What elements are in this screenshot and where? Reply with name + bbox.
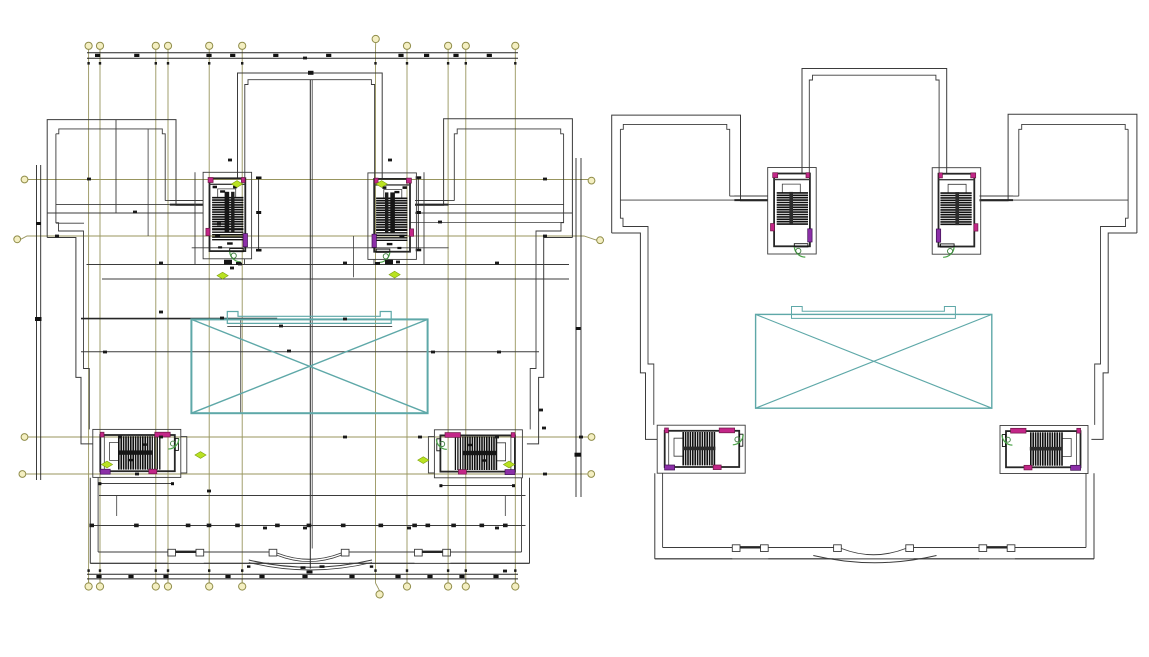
dim tick <box>349 575 354 578</box>
partition x=116 <box>115 120 117 213</box>
grid line x=155.8 <box>155 49 157 583</box>
grid bubble right 2 <box>597 237 604 244</box>
grid bubble left 2 <box>14 236 21 243</box>
grid line x=168 <box>167 49 169 583</box>
dim tick <box>459 575 464 578</box>
stair core bottom-left (right plan) <box>657 425 745 473</box>
floor line y=248 <box>192 247 449 249</box>
stair core top-right (right plan) <box>932 168 981 258</box>
stair annex right <box>428 437 434 473</box>
entrance arc inner <box>277 553 341 559</box>
grid bubbles bottom <box>85 579 519 598</box>
skylight diagonal 1 <box>191 319 427 413</box>
wall: top-left wing inner <box>56 129 203 201</box>
grid bubble <box>152 42 159 49</box>
grid bubble <box>372 35 379 42</box>
grid bubble <box>85 583 92 590</box>
grid bubble left 1 <box>21 176 28 183</box>
wall inner below right stair <box>521 478 523 552</box>
wall: bottom wall outer segments <box>655 558 733 560</box>
partition x=116 <box>116 496 118 517</box>
grid bubbles sides <box>14 176 604 477</box>
dim tick <box>273 54 278 57</box>
grid bubble <box>164 42 171 49</box>
grid line y=179 <box>28 179 588 181</box>
dim tick <box>259 575 264 578</box>
detail marks <box>55 57 583 573</box>
interior partitions <box>89 120 507 528</box>
grid bubble <box>85 42 92 49</box>
partition x=148 <box>147 129 149 236</box>
wall: top-centre protrusion outer <box>802 69 947 175</box>
partition left of stair TL <box>194 172 196 264</box>
dim tick <box>398 54 403 57</box>
wall: protrusion inner <box>809 75 939 174</box>
skylight top vent <box>792 307 956 319</box>
window tabs <box>168 549 176 556</box>
dim tick <box>427 575 432 578</box>
wall: top-centre protrusion outer <box>238 73 383 179</box>
wall: bottom wall outer segments <box>90 562 168 564</box>
stair dimension line 2 <box>416 176 422 251</box>
glazing segment left <box>740 546 761 548</box>
grid bubbles top <box>85 35 519 49</box>
partition right of stair TR <box>423 172 425 264</box>
dim tick <box>35 317 42 321</box>
grid line x=209.2 <box>208 49 210 583</box>
marks below top stairs <box>224 71 393 265</box>
window tabs <box>732 545 740 552</box>
dim tick <box>487 54 492 57</box>
dim tick <box>206 54 211 57</box>
wall: top-right wing inner <box>980 124 1129 196</box>
glazing segment left <box>176 551 197 553</box>
grid bubble <box>445 42 452 49</box>
stair core top-left (right plan) <box>768 168 817 258</box>
wall inner below left stair <box>662 473 664 547</box>
floor line y=352 <box>81 351 539 353</box>
skylight diagonal 1 <box>756 314 992 408</box>
grid stub dots <box>87 62 516 572</box>
wall: stair connector left <box>56 204 170 206</box>
grid line y=437 <box>28 436 588 438</box>
wall: left inner step <box>56 134 89 430</box>
grid bubble right 1 <box>588 177 595 184</box>
grid bubble <box>206 42 213 49</box>
stair sub-dimension bottom-right <box>439 484 515 487</box>
stair core bottom-right <box>434 430 522 478</box>
stair dimension line 1 <box>256 177 262 252</box>
entrance arc outer <box>249 560 372 567</box>
grid bubble <box>96 583 103 590</box>
dimension line right <box>575 158 582 497</box>
wall: stair connector right <box>449 204 564 206</box>
floor line y=213 <box>47 212 203 214</box>
wall: wing bottom outer left <box>612 233 658 439</box>
partition x=505 <box>504 496 506 517</box>
grid bubble <box>206 583 213 590</box>
grid bubble right 4 <box>588 471 595 478</box>
grid bubble left 3 <box>21 434 28 441</box>
grid bubble <box>164 583 171 590</box>
dim tick <box>424 54 429 57</box>
partition x=353 <box>353 236 355 277</box>
grid bubble <box>445 583 452 590</box>
courtyard skylight box <box>756 314 992 408</box>
wall: top-left wing outer <box>47 120 203 238</box>
stair sub-dimension bottom-left <box>98 482 174 485</box>
grid line x=407 <box>406 49 408 583</box>
wall: central spine <box>309 80 311 569</box>
dim tick <box>493 575 498 578</box>
marker diamond in stair TL <box>231 181 242 188</box>
marker diamond near stair BL <box>195 452 206 459</box>
left plan: detailed floor plan <box>14 35 604 598</box>
grid line x=88.6 <box>88 49 90 583</box>
wall: right inner step <box>530 134 563 430</box>
grid bubble <box>512 583 519 590</box>
marker diamond in stair BR <box>503 461 514 468</box>
skylight diagonal 2 <box>756 314 992 408</box>
wall: top-right wing outer <box>980 114 1137 233</box>
arc marks <box>247 565 373 573</box>
wall: left inner step <box>620 129 653 425</box>
glazing segment right <box>987 546 1008 548</box>
grid bubble <box>462 42 469 49</box>
dim tick <box>163 575 168 578</box>
floor line y=279 <box>102 278 569 280</box>
partition x=240 <box>240 319 242 413</box>
wall: right inner step <box>1095 129 1128 425</box>
grid bubble <box>152 583 159 590</box>
stair core top-left <box>203 172 252 262</box>
wall inner below right stair <box>1085 473 1087 547</box>
wall: bottom wall inner segments <box>663 547 733 549</box>
door stub below stair TL <box>244 259 246 264</box>
grid line y=474 <box>26 473 587 475</box>
dim tick <box>326 54 331 57</box>
column ticks on floor line <box>89 524 94 528</box>
grid line x=448.1 <box>447 49 449 583</box>
grid bubble <box>239 583 246 590</box>
grid line y=236 <box>21 236 597 240</box>
grid bubble <box>512 42 519 49</box>
dimension line bottom <box>87 574 518 579</box>
dimension line top <box>87 53 518 59</box>
stair core top-right <box>368 173 417 263</box>
dim tick <box>134 54 139 57</box>
wall: top-right wing inner <box>415 129 564 201</box>
right plan: simplified floor plan <box>612 69 1137 563</box>
wall: top-right wing outer <box>415 119 572 238</box>
wall: bottom wall inner segments <box>98 551 168 553</box>
grid lines vertical <box>89 49 516 583</box>
dim tick <box>453 54 458 57</box>
grid bubble <box>462 583 469 590</box>
skylight diagonal 2 <box>191 319 427 413</box>
dim tick <box>575 453 582 457</box>
wall: stair connector left <box>620 199 734 201</box>
grid bubble <box>96 42 103 49</box>
entrance arc outer <box>813 556 936 563</box>
floor edge y=223 left <box>56 222 84 224</box>
door stub below stair TR <box>373 259 375 264</box>
dimension line left <box>35 165 42 480</box>
floor line y=525 <box>92 525 526 527</box>
grid bubble <box>239 42 246 49</box>
wall: stair connector right <box>1013 199 1128 201</box>
floor line y=326 <box>227 326 392 328</box>
floor line y=318 <box>81 318 277 320</box>
marker diamond in stair TR <box>376 181 387 188</box>
grid bubble left 4 <box>19 471 26 478</box>
grid bubble <box>403 583 410 590</box>
dim tick <box>395 575 400 578</box>
wall: lower mass outer <box>655 473 1094 559</box>
grid bubble right 3 <box>588 434 595 441</box>
dim tick <box>225 575 230 578</box>
floor line y=495 <box>99 495 526 497</box>
grid line x=515.3 <box>514 49 516 583</box>
dim tick <box>128 575 133 578</box>
wall: wing bottom outer right <box>1091 233 1137 439</box>
marker diamond below stair TR <box>389 271 400 278</box>
dim tick <box>576 327 581 330</box>
wall: wing bottom outer left <box>47 238 93 444</box>
skylight top vent <box>227 312 391 324</box>
wall: protrusion inner <box>245 80 375 179</box>
stair annex left <box>181 437 187 473</box>
wall: top-left wing outer <box>612 115 768 233</box>
wall inner below left stair <box>97 478 99 552</box>
grid lines horizontal <box>21 180 597 475</box>
floor edge y=222 right <box>410 221 564 223</box>
marker diamond below stair TL <box>217 272 228 279</box>
dim tick <box>96 575 101 578</box>
stair core bottom-left <box>93 429 181 477</box>
grid line x=465.8 <box>465 49 467 583</box>
grid bubble <box>376 591 383 598</box>
floor line y=213 right <box>415 212 572 214</box>
floor line y=264 <box>87 264 570 266</box>
wall: lower mass outer <box>90 478 529 564</box>
dim tick <box>302 575 307 578</box>
marker diamond near stair BR <box>418 457 429 464</box>
grid line x=242.2 <box>241 49 243 583</box>
glazing segment right <box>422 551 443 553</box>
stair core bottom-right (right plan) <box>1000 426 1088 474</box>
entrance arc inner <box>842 549 906 555</box>
marker diamond in stair BL <box>101 461 112 468</box>
entrance arc extra outer <box>249 563 372 571</box>
grid line x=100 <box>99 49 101 583</box>
grid bubble <box>403 42 410 49</box>
dim tick <box>36 222 41 225</box>
wall: wing bottom outer right <box>527 238 573 444</box>
dim tick <box>95 54 100 57</box>
courtyard skylight box <box>191 319 427 413</box>
entrance arc extra inner <box>277 555 341 561</box>
grid line x=375.5 <box>375 49 377 583</box>
dim tick <box>230 54 235 57</box>
wall: top-left wing inner <box>620 124 767 196</box>
